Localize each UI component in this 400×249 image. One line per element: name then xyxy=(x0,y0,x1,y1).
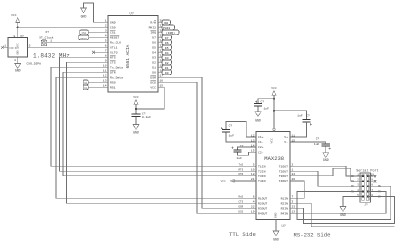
svg-text:D2: D2 xyxy=(152,60,156,64)
svg-text:GND: GND xyxy=(255,119,261,123)
svg-text:1uF: 1uF xyxy=(229,135,235,138)
wire T1OUT to serial pin 1 xyxy=(290,166,356,176)
svg-text:C?: C? xyxy=(306,114,310,117)
left pin stubs xyxy=(356,175,362,177)
net label PHI2 (pin 27) xyxy=(158,25,175,30)
svg-text:DSR: DSR xyxy=(150,75,156,79)
svg-text:VCC: VCC xyxy=(271,138,274,144)
net label D1 (pin 19) xyxy=(158,65,172,70)
net label A0 (pin 13) xyxy=(83,80,108,85)
svg-text:VCC: VCC xyxy=(150,85,156,89)
svg-text:U?: U? xyxy=(282,225,286,229)
no-connect x pin 9 xyxy=(374,180,376,182)
ground (below C4) xyxy=(255,112,261,123)
net label CS1 (pin 3) xyxy=(80,30,108,35)
svg-text:R2OUT: R2OUT xyxy=(258,201,267,205)
svg-text:T2OUT: T2OUT xyxy=(279,169,288,173)
crystal oscillator X1 1.8432 MHz xyxy=(8,35,28,62)
svg-text:DSR: DSR xyxy=(239,206,244,209)
svg-text:Rx_Data: Rx_Data xyxy=(110,75,123,79)
svg-text:1uF: 1uF xyxy=(314,143,320,146)
svg-text:T3OUT: T3OUT xyxy=(279,174,288,178)
node VCC junction xyxy=(135,108,137,110)
svg-text:1: 1 xyxy=(105,20,107,23)
net label D3 (pin 21) xyxy=(158,55,172,60)
svg-text:D1: D1 xyxy=(152,65,156,69)
net label IRQ (pin 26) xyxy=(158,30,179,35)
svg-text:22: 22 xyxy=(251,206,255,209)
svg-text:RS-232 Side: RS-232 Side xyxy=(294,232,331,239)
IC U1 6551 ACIA xyxy=(103,12,163,92)
net label RW (pin 28) xyxy=(158,20,171,25)
wire VCC rail to pin 2 CS0 xyxy=(18,26,108,28)
svg-text:GND: GND xyxy=(340,213,346,217)
svg-text:RESET: RESET xyxy=(110,35,119,39)
svg-text:D0: D0 xyxy=(165,72,169,75)
svg-text:6551 ACIA: 6551 ACIA xyxy=(126,44,131,68)
wire R3IN to serial pin 6 xyxy=(290,197,395,224)
wire CTS bus (pin 9 to R2OUT) xyxy=(67,62,257,203)
svg-text:T2IN: T2IN xyxy=(258,169,266,173)
node VCC junction to CS0 xyxy=(17,26,19,28)
svg-text:MAX238: MAX238 xyxy=(264,155,284,162)
wire DSR (pin 17 to R3OUT) xyxy=(158,77,256,208)
svg-text:V+: V+ xyxy=(284,135,288,139)
svg-text:R3IN: R3IN xyxy=(281,206,289,210)
svg-text:PHI2: PHI2 xyxy=(163,27,170,30)
svg-text:C?: C? xyxy=(229,124,233,127)
svg-text:10: 10 xyxy=(251,169,255,172)
svg-text:DCD: DCD xyxy=(239,211,244,214)
svg-text:C1-: C1- xyxy=(258,140,264,144)
wire crystal to XTL1 (pin 6) xyxy=(28,46,109,48)
ground (top, pin 1) xyxy=(81,3,94,22)
svg-text:GND: GND xyxy=(15,69,21,73)
svg-text:1uF: 1uF xyxy=(264,108,270,111)
svg-text:XTL1: XTL1 xyxy=(110,45,118,49)
svg-text:R4IN: R4IN xyxy=(281,211,289,215)
IC U2 MAX238 xyxy=(251,132,295,220)
svg-text:GND: GND xyxy=(323,158,329,162)
svg-text:5: 5 xyxy=(105,40,107,43)
svg-text:DTR: DTR xyxy=(239,173,244,176)
ground (MAX238 GND pin) xyxy=(273,220,286,242)
ground (below C6) xyxy=(323,153,329,162)
power VCC flag (T4IN) xyxy=(221,180,256,183)
svg-text:PHI2: PHI2 xyxy=(149,25,157,29)
svg-text:1.8432 MHz: 1.8432 MHz xyxy=(33,53,70,60)
svg-text:IRQ: IRQ xyxy=(150,30,156,34)
svg-text:A1: A1 xyxy=(84,87,88,90)
ground (serial pin 5) xyxy=(340,197,356,218)
capacitor C5 1uF (V+) xyxy=(274,111,312,137)
svg-text:RxD: RxD xyxy=(239,196,244,199)
net label D0 (pin 18) xyxy=(158,70,172,75)
svg-text:GND: GND xyxy=(81,15,87,19)
node junction (VCC to bypass cap) xyxy=(273,98,275,100)
svg-text:VCC: VCC xyxy=(271,87,277,90)
svg-text:VCC: VCC xyxy=(133,96,139,99)
svg-text:D4: D4 xyxy=(152,50,156,54)
svg-text:X?: X? xyxy=(45,31,49,34)
no-connect x pin 10 xyxy=(374,175,376,177)
overlines on active-low pin names xyxy=(110,21,156,81)
svg-text:R3OUT: R3OUT xyxy=(258,206,267,210)
svg-text:T3IN: T3IN xyxy=(258,174,266,178)
net label RESET (pin 4) xyxy=(79,35,108,40)
svg-text:18: 18 xyxy=(251,173,255,176)
svg-text:R1IN: R1IN xyxy=(281,196,289,200)
net label D5 (pin 23) xyxy=(158,45,172,50)
wire T3OUT to serial pin 2 xyxy=(290,168,356,181)
svg-text:Tx_Data: Tx_Data xyxy=(110,65,123,69)
svg-text:XLT0: XLT0 xyxy=(110,50,118,54)
svg-text:RESET: RESET xyxy=(80,37,87,40)
svg-text:7: 7 xyxy=(105,50,107,53)
svg-text:RW: RW xyxy=(164,22,168,25)
wire RTS bus (pin 8 to T2IN) xyxy=(60,57,257,171)
svg-text:1uF: 1uF xyxy=(297,114,303,117)
svg-text:RTS: RTS xyxy=(110,55,116,59)
svg-text:C2-: C2- xyxy=(258,150,264,154)
net label D7 (pin 25) xyxy=(158,35,172,40)
net label A1 (pin 14) xyxy=(83,85,108,90)
svg-text:(IRQ): (IRQ) xyxy=(166,31,175,35)
svg-text:T4OUT: T4OUT xyxy=(279,179,288,183)
wire T2OUT to serial pin 3 xyxy=(290,171,356,186)
node junction (VCC to V+ cap) xyxy=(273,110,275,112)
svg-text:A0: A0 xyxy=(84,82,88,85)
svg-text:4: 4 xyxy=(253,201,255,204)
svg-text:0.1uF: 0.1uF xyxy=(142,116,151,119)
svg-text:XIN OUT: XIN OUT xyxy=(9,47,19,50)
svg-text:TTL Side: TTL Side xyxy=(229,231,256,238)
svg-text:RTS: RTS xyxy=(239,169,244,172)
wire T4OUT loop to R1IN xyxy=(290,181,304,198)
svg-text:C1+: C1+ xyxy=(258,135,264,139)
ground (below crystal) xyxy=(15,57,21,73)
pin pads xyxy=(362,175,368,197)
svg-text:2: 2 xyxy=(105,25,107,28)
svg-text:VCC: VCC xyxy=(11,14,17,17)
wire R4IN to serial pin 7 xyxy=(290,191,386,213)
wire pin 15 VCC to rail xyxy=(136,87,164,109)
svg-text:C?: C? xyxy=(261,100,265,103)
net label D2 (pin 20) xyxy=(158,60,172,65)
svg-text:GND: GND xyxy=(17,50,20,55)
wire serial pin 4 to pin 8 loop xyxy=(297,186,391,219)
capacitor C4 1uF (VCC bypass) xyxy=(254,99,274,112)
svg-text:4: 4 xyxy=(14,59,16,62)
svg-text:CTS: CTS xyxy=(239,201,244,204)
svg-text:T4IN: T4IN xyxy=(258,179,266,183)
svg-text:D0: D0 xyxy=(152,70,156,74)
svg-text:D5: D5 xyxy=(152,45,156,49)
wire DTR bus (pin 11 to T3IN) xyxy=(63,72,256,176)
svg-text:GND: GND xyxy=(110,20,116,24)
svg-text:19: 19 xyxy=(251,211,255,214)
svg-text:CS1: CS1 xyxy=(82,32,87,35)
svg-text:D3: D3 xyxy=(165,57,169,60)
svg-text:3: 3 xyxy=(105,30,107,33)
svg-text:DCD: DCD xyxy=(150,80,156,84)
wire R2IN branch xyxy=(290,203,395,227)
capacitor C6 1uF (V-) xyxy=(290,138,331,153)
no-connect x on pin 7 XLT0 xyxy=(92,51,108,54)
clock input flag XT_Clock xyxy=(39,31,108,46)
svg-text:6: 6 xyxy=(105,45,107,48)
svg-text:GND: GND xyxy=(273,237,279,241)
svg-text:RS1: RS1 xyxy=(110,85,116,89)
svg-text:V-: V- xyxy=(284,140,288,144)
svg-text:CTS: CTS xyxy=(110,60,116,64)
svg-text:GND: GND xyxy=(133,131,139,135)
power VCC flag (below 6551) xyxy=(133,96,139,114)
svg-text:5: 5 xyxy=(253,164,255,167)
svg-text:C2+: C2+ xyxy=(258,145,264,149)
svg-text:RS0: RS0 xyxy=(110,80,116,84)
svg-text:R1OUT: R1OUT xyxy=(258,196,267,200)
svg-text:CXO_DIP8: CXO_DIP8 xyxy=(27,62,42,65)
power VCC flag (MAX238) xyxy=(271,87,277,132)
no-connect x on crystal left pin xyxy=(1,44,8,49)
svg-text:R2IN: R2IN xyxy=(281,201,289,205)
svg-text:T1OUT: T1OUT xyxy=(279,164,288,168)
capacitor C3 1uF (charge pump C2) xyxy=(231,145,256,160)
wire Rx_Data bus (pin 12 to R1OUT) xyxy=(56,77,256,198)
capacitor C2 1uF (charge pump C1) xyxy=(221,121,256,142)
svg-text:6: 6 xyxy=(253,196,255,199)
svg-text:D4: D4 xyxy=(165,52,169,55)
right pin stubs xyxy=(368,175,374,177)
svg-text:D6: D6 xyxy=(165,42,169,45)
svg-text:R4OUT: R4OUT xyxy=(258,211,267,215)
wire DCD (pin 16 to R4OUT) xyxy=(158,82,256,213)
svg-text:4: 4 xyxy=(105,35,107,38)
svg-text:1: 1 xyxy=(4,44,6,47)
svg-text:Rx_CLK: Rx_CLK xyxy=(110,40,121,44)
svg-text:CS1: CS1 xyxy=(110,30,116,34)
connector J1 Serial Port xyxy=(351,168,381,206)
svg-text:C?: C? xyxy=(316,138,320,141)
svg-text:D7: D7 xyxy=(152,35,156,39)
svg-text:D5: D5 xyxy=(165,47,169,50)
svg-text:1uF: 1uF xyxy=(237,157,243,160)
capacitor C1 0.1uF xyxy=(131,112,151,124)
svg-text:D3: D3 xyxy=(152,55,156,59)
net label D6 (pin 24) xyxy=(158,40,172,45)
svg-text:J?: J? xyxy=(364,204,368,207)
svg-text:D1: D1 xyxy=(165,67,169,70)
svg-text:R/W: R/W xyxy=(150,20,156,24)
net label D4 (pin 22) xyxy=(158,50,172,55)
svg-text:DTR: DTR xyxy=(110,70,116,74)
svg-text:GND: GND xyxy=(275,212,278,218)
power VCC flag (crystal) xyxy=(11,14,20,38)
wire pin1 GND xyxy=(94,21,109,23)
svg-text:D6: D6 xyxy=(152,40,156,44)
ground (below C1) xyxy=(133,125,139,135)
svg-text:CS0: CS0 xyxy=(110,25,116,29)
wire Tx_Data bus (pin 10 to T1IN) xyxy=(51,67,256,166)
svg-text:VCC: VCC xyxy=(221,180,226,183)
svg-text:D2: D2 xyxy=(165,62,169,65)
svg-text:TxD: TxD xyxy=(239,164,244,167)
svg-text:5: 5 xyxy=(29,44,31,47)
svg-text:T1IN: T1IN xyxy=(258,164,266,168)
svg-text:D7: D7 xyxy=(165,37,169,40)
